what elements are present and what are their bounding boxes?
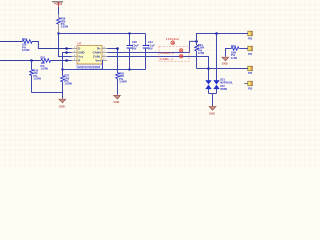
connector pin P50 <box>248 31 253 40</box>
svg-text:SN65HVD230DR: SN65HVD230DR <box>78 65 101 69</box>
TVS D21 NUP2105L <box>206 77 234 106</box>
svg-text:6: 6 <box>103 55 104 57</box>
svg-text:GND: GND <box>113 100 119 104</box>
wire VCC rail <box>59 33 146 35</box>
resistor R21 120R <box>195 41 205 68</box>
wire TXD from left edge <box>0 41 23 43</box>
pin stubs right <box>102 49 107 61</box>
IC U1 SN65HVD230 <box>72 42 107 64</box>
svg-text:P51: P51 <box>248 53 253 56</box>
capacitor C28 2.2uF <box>127 34 139 70</box>
svg-text:8: 8 <box>103 47 104 49</box>
svg-text:1/10W: 1/10W <box>61 25 69 29</box>
wire GND pin drop <box>63 53 72 76</box>
svg-text:GND: GND <box>222 62 228 66</box>
node C on R wire <box>65 59 68 62</box>
svg-text:1/4W: 1/4W <box>198 51 205 55</box>
ground left <box>59 93 66 109</box>
no-ERC marker CANH <box>180 49 183 52</box>
diode pair 1 <box>206 80 212 82</box>
node CANH/TVS <box>215 32 218 35</box>
wire CANH up to connector pin 1 <box>197 34 248 42</box>
node CANH/R21 <box>195 40 198 43</box>
svg-text:CANL_L: CANL_L <box>160 57 173 61</box>
node CANL/rail <box>207 67 210 70</box>
svg-text:+3V3: +3V3 <box>54 2 62 6</box>
pin stubs left <box>72 49 77 61</box>
wire TXD jog to IC pin 1 (D) <box>32 42 72 49</box>
wire CANL rail to connector pin 3 <box>197 68 248 70</box>
svg-text:1: 1 <box>74 47 75 49</box>
svg-text:U?: U? <box>78 42 82 46</box>
merge <box>209 94 217 106</box>
svg-text:3: 3 <box>74 55 75 57</box>
resistor R31 <box>41 56 51 71</box>
resistor R28 <box>116 71 128 94</box>
ground shield <box>222 56 229 65</box>
node RXD branch <box>30 59 33 62</box>
svg-text:R16: R16 <box>231 44 236 48</box>
svg-text:50V: 50V <box>148 47 153 51</box>
wire GND/Vref rail under IC <box>63 69 146 71</box>
svg-text:350W: 350W <box>220 87 227 91</box>
node on VCC rail at C28 <box>128 32 130 34</box>
svg-text:CANH_L: CANH_L <box>160 51 174 55</box>
resistor R16 shield <box>226 44 248 60</box>
wire CANL <box>107 57 208 81</box>
no-ERC marker CANL <box>180 55 183 58</box>
node Rs <box>116 47 119 50</box>
resistor R27 <box>61 74 73 93</box>
svg-text:GND: GND <box>209 111 215 115</box>
wire CANH <box>107 41 196 52</box>
svg-text:50V: 50V <box>132 47 137 51</box>
svg-text:R: R <box>78 58 80 62</box>
node A on D wire <box>65 47 68 50</box>
wire RXD to IC pin 4 (R) <box>51 60 72 62</box>
svg-text:5: 5 <box>103 59 104 61</box>
svg-text:1/10W: 1/10W <box>41 67 49 71</box>
svg-text:GND: GND <box>59 105 65 109</box>
connector pin P53 <box>244 81 253 90</box>
dashed net box <box>159 47 189 62</box>
svg-text:R31: R31 <box>41 56 46 60</box>
svg-text:R19: R19 <box>22 37 27 41</box>
svg-text:2: 2 <box>74 51 75 53</box>
wire TVS D2 drop <box>216 34 218 81</box>
wire bottom join <box>32 92 63 94</box>
svg-text:7: 7 <box>103 51 104 53</box>
node GND rail joint <box>61 68 63 70</box>
text part number <box>77 65 102 68</box>
ground TVS <box>209 106 216 116</box>
resistor R26 <box>57 15 69 34</box>
node: VCC junction <box>57 32 59 34</box>
diode pair 2 <box>214 80 220 82</box>
wire from power to R26 <box>58 7 60 15</box>
svg-text:1/10W: 1/10W <box>119 80 127 84</box>
wire RXD from left edge <box>0 60 41 62</box>
power +3V3 <box>52 2 63 7</box>
svg-text:Vref: Vref <box>95 58 100 62</box>
svg-text:P50: P50 <box>248 38 253 41</box>
wire Vref pin drop <box>101 61 104 70</box>
svg-text:1/4W: 1/4W <box>231 56 238 60</box>
svg-text:P53: P53 <box>248 88 253 91</box>
svg-text:120ohm: 120ohm <box>166 37 179 41</box>
resistor R19 <box>22 37 32 52</box>
wire Rs drop <box>107 49 117 73</box>
capacitor C31 0.1uF <box>143 34 155 70</box>
svg-text:P52: P52 <box>248 72 253 75</box>
wire Vcc feed to IC pin 3 <box>59 34 72 57</box>
svg-text:1/10W: 1/10W <box>33 77 41 81</box>
ground mid <box>113 95 120 104</box>
node B on GND wire <box>65 51 68 54</box>
svg-text:1/10W: 1/10W <box>22 48 30 52</box>
connector pin P52 <box>248 66 253 75</box>
svg-text:1/10W: 1/10W <box>64 82 72 86</box>
node C28-rail <box>128 68 130 70</box>
resistor R30 <box>30 61 42 93</box>
connector pin P51 <box>248 46 253 56</box>
